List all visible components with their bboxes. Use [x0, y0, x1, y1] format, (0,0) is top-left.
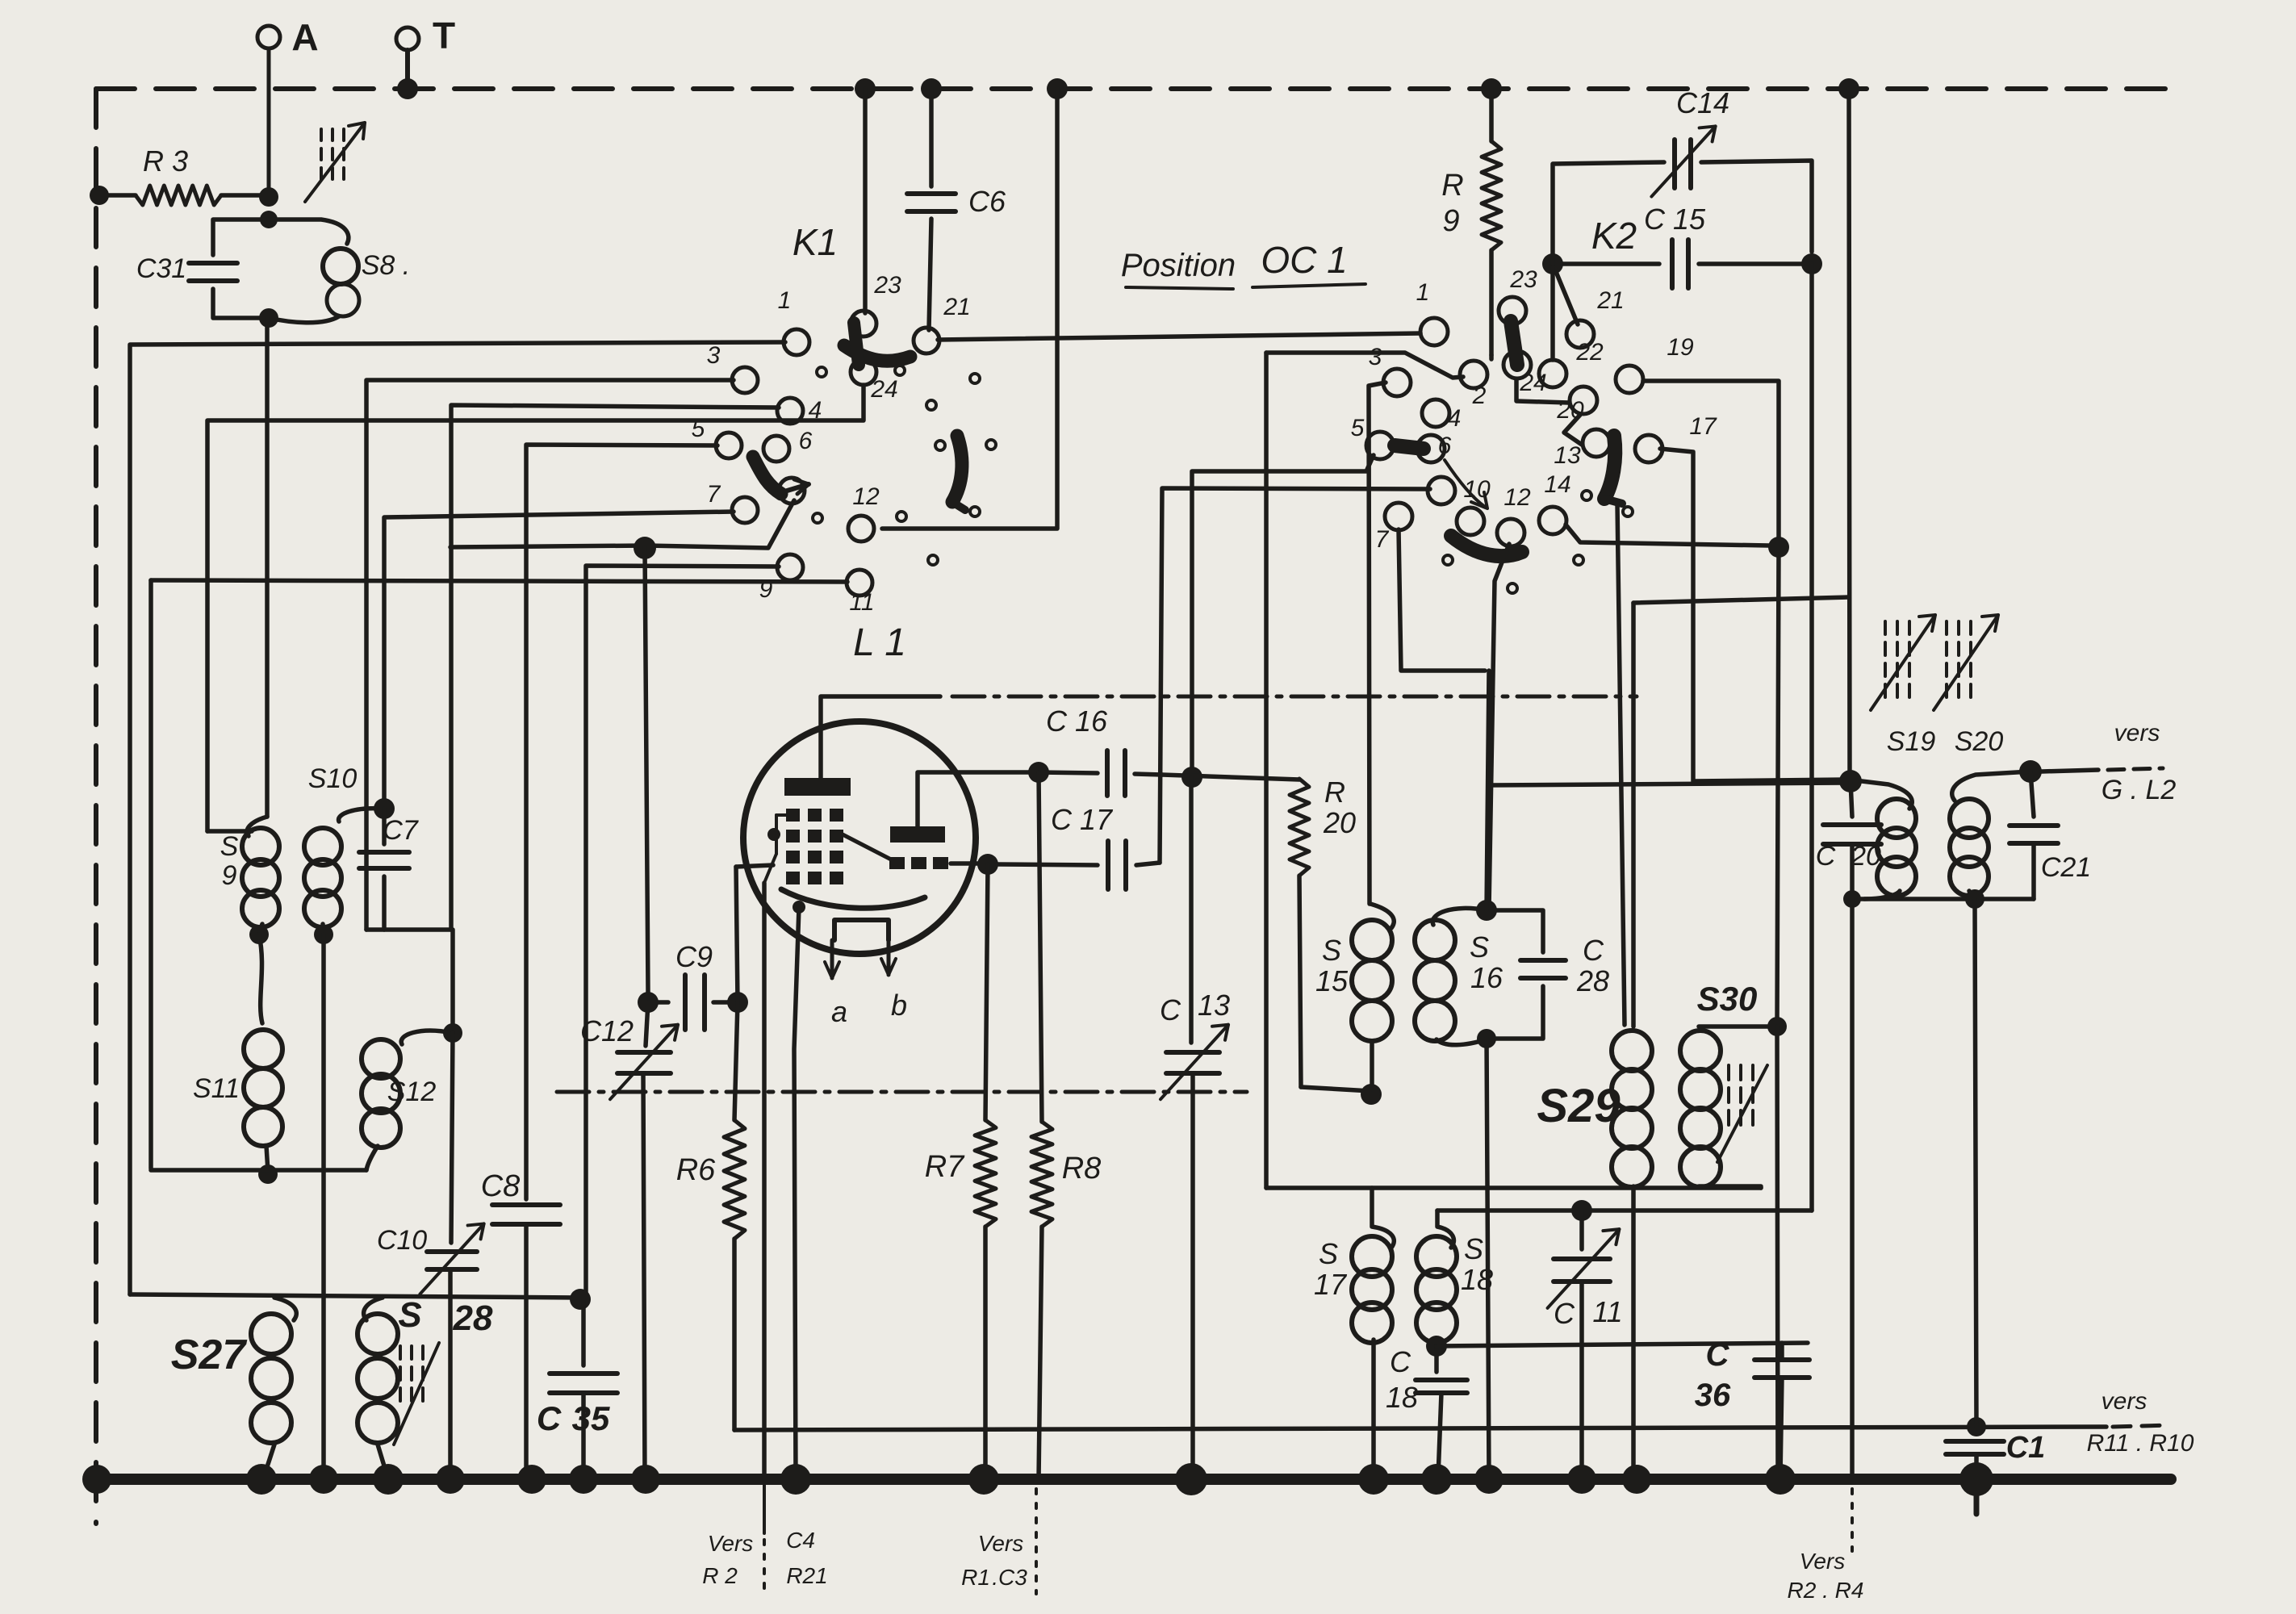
node K1 terminal 3	[732, 367, 758, 393]
node K1 pin label 24	[870, 376, 897, 403]
svg-text:1: 1	[1416, 279, 1430, 306]
inductor S19	[1862, 726, 1935, 899]
switch K2 rotor bar A	[1511, 321, 1517, 365]
inductor S20	[1950, 726, 2030, 899]
node K2 pin label 12	[1503, 484, 1531, 511]
node K1 terminal 21	[914, 328, 939, 353]
wire K2-7 feed	[1399, 529, 1485, 671]
svg-text:21: 21	[943, 294, 970, 320]
svg-text:S20: S20	[1955, 726, 2004, 757]
svg-text:S29: S29	[1537, 1080, 1620, 1132]
svg-text:K1: K1	[793, 221, 838, 263]
wire S29 top link	[1633, 597, 1849, 603]
wire K2 rotor to S29	[1617, 504, 1625, 1025]
svg-text:7: 7	[707, 481, 721, 508]
svg-text:S8 .: S8 .	[362, 250, 410, 281]
wire R3 right	[221, 187, 278, 228]
svg-text:S27: S27	[171, 1332, 248, 1378]
svg-text:C21: C21	[2041, 852, 2091, 883]
node K2 terminal 12	[1497, 519, 1524, 546]
wire K2-5 feed	[1192, 455, 1374, 776]
svg-text:24: 24	[870, 376, 897, 403]
svg-text:R 3: R 3	[143, 144, 188, 178]
svg-text:9: 9	[222, 860, 237, 891]
svg-text:36: 36	[1695, 1378, 1731, 1413]
resistor R20	[1290, 776, 1371, 1091]
svg-text:17: 17	[1314, 1268, 1348, 1301]
wire S16 drop	[1487, 1039, 1489, 1478]
switch K2 rotor arc D	[1451, 536, 1522, 556]
node K1 terminal 6	[763, 436, 789, 462]
capacitor C14	[1553, 86, 1812, 264]
svg-text:C10: C10	[377, 1225, 427, 1256]
node K2 pin label 4	[1448, 405, 1462, 432]
svg-text:R: R	[1441, 169, 1463, 203]
wire K2-12 drop	[1489, 544, 1509, 909]
svg-text:S12: S12	[387, 1077, 437, 1107]
svg-text:3: 3	[1369, 344, 1382, 370]
capacitor C16	[1028, 705, 1162, 796]
node K2 terminal 10	[1457, 508, 1484, 535]
svg-text:4: 4	[1448, 405, 1462, 432]
capacitor C13 trimmer	[1160, 777, 1230, 1479]
svg-text:T: T	[433, 15, 455, 56]
svg-text:C: C	[1554, 1297, 1575, 1330]
svg-text:3: 3	[707, 342, 721, 369]
node K2-14 junction	[1768, 537, 1789, 558]
svg-text:S11: S11	[193, 1073, 240, 1104]
svg-text:a: a	[831, 995, 847, 1028]
wire R6 bottom rail	[734, 1427, 2106, 1430]
node K2 terminal 7	[1385, 503, 1412, 530]
node K1 terminal 9	[777, 554, 803, 580]
tube L1 heater pin b	[881, 940, 907, 1022]
capacitor C28	[1496, 910, 1609, 1039]
svg-text:C12: C12	[580, 1014, 634, 1047]
node ground junction x120	[82, 1465, 111, 1494]
tube L1 cathode	[781, 889, 925, 914]
svg-text:Position: Position	[1121, 248, 1236, 283]
wire y1662	[1437, 1343, 1808, 1346]
svg-text:C: C	[1390, 1345, 1411, 1378]
svg-text:S19: S19	[1887, 726, 1936, 757]
wire right drop	[1849, 89, 1850, 780]
node label vers R2	[702, 1531, 753, 1588]
capacitor C17	[997, 803, 1160, 889]
svg-text:S10: S10	[308, 763, 358, 794]
svg-text:R1 .C3: R1 .C3	[961, 1565, 1027, 1590]
wire L1 top cap	[821, 696, 940, 778]
svg-text:2: 2	[1472, 383, 1487, 409]
svg-text:S30: S30	[1697, 980, 1758, 1018]
wire K2 24-20 link	[1516, 379, 1569, 403]
inductor S28	[358, 1295, 493, 1479]
node K2 terminal 4	[1422, 399, 1449, 427]
node K2 terminal 13	[1583, 429, 1610, 457]
svg-text:G . L2: G . L2	[2102, 775, 2177, 805]
node K2 spare contacts	[1443, 491, 1633, 593]
node label C4 R21	[786, 1528, 828, 1588]
wire K2 outline drop	[1264, 353, 1269, 1188]
capacitor C12 trimmer	[580, 1002, 678, 1479]
wire K1-11 drop	[148, 580, 153, 1169]
node C16 right join	[1181, 767, 1202, 788]
svg-text:C: C	[1583, 934, 1604, 967]
wire K1-8 drop	[645, 548, 648, 993]
wire L1 anode up	[918, 772, 1030, 826]
node K1 terminal 24	[851, 359, 876, 385]
node K1 terminal 5	[716, 433, 742, 458]
node ground junction x659	[517, 1465, 546, 1494]
svg-text:11: 11	[1592, 1295, 1622, 1328]
svg-text:6: 6	[1438, 433, 1452, 459]
svg-text:vers: vers	[2102, 1388, 2148, 1415]
node ground junction x1476	[1175, 1463, 1207, 1495]
switch K1 label	[793, 221, 838, 263]
node ground junction x2449	[1959, 1462, 1993, 1496]
svg-text:18: 18	[1386, 1381, 1418, 1414]
node S30 junction	[1767, 1017, 1787, 1036]
capacitor C10 trimmer	[377, 1033, 484, 1479]
svg-text:R6: R6	[676, 1153, 716, 1187]
wire K2 bottom rail	[1266, 1185, 1761, 1190]
switch K2 label	[1591, 215, 1637, 257]
inductor S27	[171, 1298, 297, 1479]
svg-text:R21: R21	[786, 1563, 827, 1588]
wire K1-5 feed	[526, 445, 717, 1199]
capacitor C9	[638, 940, 748, 1030]
inductor S8	[259, 220, 410, 328]
wire K2-14 feed	[1566, 525, 1769, 546]
svg-text:K2: K2	[1591, 215, 1637, 257]
svg-text:23: 23	[873, 272, 901, 299]
node label Position OC1	[1121, 239, 1365, 289]
node junction top5	[1838, 78, 1859, 99]
node ground junction x324	[246, 1464, 277, 1495]
svg-text:C14: C14	[1676, 86, 1729, 119]
node K1 pin label 9	[759, 576, 773, 603]
node K2 terminal 24	[1503, 351, 1531, 378]
wire y1500 rail	[1437, 1208, 1812, 1213]
wire S19 bottom rail	[1843, 889, 2034, 909]
node ground junction x2206	[1765, 1464, 1796, 1495]
node K1 terminal 11	[847, 570, 872, 596]
node K1 terminal 23	[851, 311, 876, 337]
capacitor C21	[2010, 771, 2091, 899]
node K2 terminal 1	[1420, 318, 1448, 345]
node K2 terminal 21	[1566, 320, 1594, 348]
wire B+ drop to K1-12	[882, 89, 1057, 529]
svg-text:L 1: L 1	[853, 621, 906, 664]
node K2 terminal 22	[1539, 360, 1566, 387]
node K2 pin label 23	[1509, 266, 1537, 293]
node S20 top junction	[2019, 760, 2042, 783]
inductor S29 label	[1537, 1080, 1620, 1132]
wire vers R11 dashes	[2113, 1425, 2169, 1427]
svg-text:22: 22	[1575, 339, 1604, 366]
wire S11 link	[259, 935, 262, 1023]
node K1 terminal 1	[784, 329, 809, 355]
node S19 core marks	[1871, 615, 1935, 710]
node S16 bottom junction	[1477, 1029, 1496, 1048]
wire y965	[1162, 775, 1299, 780]
svg-text:OC 1: OC 1	[1261, 239, 1347, 281]
tube L1 label	[853, 621, 906, 664]
wire vers R2R4 lead	[1851, 1489, 1854, 1551]
capacitor C31	[136, 220, 269, 318]
switch K1 rotor arc B	[753, 457, 809, 494]
tube L1 control grid	[786, 809, 843, 884]
svg-text:9: 9	[1442, 204, 1459, 238]
svg-text:R11 . R10: R11 . R10	[2087, 1430, 2194, 1457]
svg-text:R2 . R4: R2 . R4	[1788, 1578, 1864, 1603]
node ground junction x1219	[968, 1464, 999, 1495]
node L1 screen junction	[977, 854, 998, 875]
svg-text:35: 35	[572, 1399, 610, 1437]
svg-text:28: 28	[1576, 964, 1609, 997]
node K2 terminal 17	[1635, 435, 1662, 462]
node K2 pin label 6	[1438, 433, 1452, 459]
node K1 pin label 7	[707, 481, 721, 508]
wire S8 down	[265, 318, 270, 817]
resistor R9	[1441, 89, 1501, 355]
inductor S16	[1415, 908, 1503, 1044]
wire dashed top border	[96, 86, 2168, 91]
svg-text:24: 24	[1519, 370, 1546, 396]
tube L1 grid link diagonal	[843, 834, 893, 860]
resistor R7	[925, 864, 996, 1479]
svg-text:C9: C9	[675, 940, 713, 973]
wire K1-8 feed	[450, 500, 794, 559]
switch K2 rotor bar B	[1395, 445, 1424, 449]
node K2 pin label 14	[1544, 471, 1570, 498]
svg-text:b: b	[891, 989, 907, 1022]
svg-text:R7: R7	[925, 1150, 965, 1184]
svg-text:R 2: R 2	[702, 1563, 738, 1588]
node K2 pin label 19	[1667, 334, 1694, 361]
capacitor C18	[1386, 1345, 1467, 1478]
wire S30 drop2	[1777, 1027, 1778, 1479]
capacitor C11 trimmer	[1548, 1210, 1623, 1478]
svg-text:C31: C31	[136, 253, 186, 284]
node K2 terminal 8	[1428, 477, 1455, 504]
node S9 bottom junction	[249, 925, 269, 944]
inductor S17	[1314, 1188, 1394, 1478]
node C1 junction	[1967, 1417, 1986, 1436]
capacitor C36	[1695, 1337, 1809, 1478]
svg-text:C8: C8	[481, 1169, 521, 1203]
svg-text:A: A	[291, 16, 318, 58]
svg-text:1: 1	[778, 287, 792, 314]
node K1 pin label 21	[943, 294, 970, 320]
svg-text:5: 5	[1351, 415, 1365, 441]
wire A lead	[267, 48, 271, 197]
svg-text:C 15: C 15	[1644, 203, 1706, 236]
switch K2 rotor arc C	[1604, 436, 1622, 504]
node junction top3	[1047, 78, 1068, 99]
wire S30 drop	[1777, 547, 1779, 1027]
svg-text:20: 20	[1850, 841, 1881, 872]
svg-text:C: C	[1160, 993, 1181, 1027]
svg-text:Vers: Vers	[708, 1531, 754, 1556]
capacitor C20	[1816, 781, 1881, 899]
svg-text:14: 14	[1544, 471, 1570, 498]
node ground junction x481	[373, 1464, 404, 1495]
wire S11 bottom rail	[151, 1168, 366, 1173]
wire K1-7 feed	[384, 512, 734, 807]
node C7 junction	[374, 798, 395, 819]
svg-text:C7: C7	[383, 815, 419, 846]
svg-text:12: 12	[852, 483, 880, 510]
node K2 terminal 6	[1417, 435, 1445, 462]
tube L1 top grid bar	[784, 778, 851, 796]
tube L1 grid tap	[764, 815, 786, 883]
node K2 pin label 10	[1463, 476, 1491, 503]
capacitor C15	[1562, 203, 1812, 1210]
node junction top2	[921, 78, 942, 99]
wire S28 core marks	[394, 1343, 439, 1445]
tube L1 anode bar	[890, 826, 945, 843]
wire L1 gang dashdot	[952, 695, 1637, 699]
svg-text:Vers: Vers	[978, 1531, 1024, 1556]
resistor R6	[676, 1002, 745, 1430]
svg-text:C 16: C 16	[1046, 705, 1108, 738]
node ground junction x1780	[1421, 1464, 1452, 1495]
inductor S12	[362, 1031, 453, 1170]
node K1 pin label 5	[692, 416, 705, 442]
wire T lead	[397, 50, 418, 99]
node K1 pin label 12	[852, 483, 880, 510]
wire K2-3 feed	[1369, 383, 1386, 904]
node K1 pin label 23	[873, 272, 901, 299]
node K2 terminal 2	[1460, 361, 1487, 388]
wire C16 drop R8	[1039, 772, 1042, 1122]
switch K1 rotor arc C	[952, 436, 965, 510]
wire K2-19 feed	[1643, 381, 1779, 539]
svg-text:19: 19	[1667, 334, 1694, 361]
switch K1 rotor arc A	[844, 323, 910, 365]
capacitor C7	[359, 809, 419, 930]
wire K1-23 drop	[863, 89, 868, 313]
node K2 pin label 1	[1416, 279, 1430, 306]
wire S27 top rail	[130, 1294, 580, 1298]
svg-text:7: 7	[1375, 526, 1390, 553]
node ground junction x986	[780, 1464, 811, 1495]
wire grid2 drop	[762, 883, 767, 1479]
node K1 pin label 6	[799, 428, 813, 454]
node ground junction x558	[436, 1465, 465, 1494]
node K1 terminal 7	[732, 497, 758, 523]
node K1 terminal 8	[779, 478, 805, 504]
inductor S29	[1612, 603, 1652, 1478]
node K1 terminal 4	[777, 398, 803, 424]
node K2 pin label 24	[1519, 370, 1546, 396]
node K2 pin label 21	[1596, 287, 1624, 314]
node K2 pin label 7	[1375, 526, 1390, 553]
node K2 pin label 2	[1472, 383, 1487, 409]
tube L1 heater pin a	[825, 940, 847, 1028]
wire K1-3 feed	[366, 380, 734, 930]
wire K2-17 feed	[1660, 449, 1848, 781]
svg-text:13: 13	[1554, 442, 1581, 469]
svg-text:28: 28	[453, 1298, 493, 1338]
svg-text:S: S	[1470, 930, 1489, 964]
wire K1-4 feed	[451, 405, 779, 930]
node K2 terminal 14	[1539, 507, 1566, 534]
node A terminal	[257, 16, 319, 58]
node K1 pin label 4	[809, 397, 822, 424]
resistor R3	[136, 144, 221, 205]
node S15 bottom junction	[1361, 1084, 1382, 1105]
node S11 bottom junction	[258, 1165, 278, 1184]
node K1 pin label 11	[849, 589, 874, 616]
wire K1-9 feed	[586, 566, 779, 1294]
svg-text:C6: C6	[968, 185, 1006, 218]
node ground junction x1960	[1567, 1465, 1596, 1494]
svg-text:13: 13	[1198, 989, 1230, 1022]
wire S20 drop	[1975, 899, 1976, 1427]
svg-text:C 17: C 17	[1051, 803, 1114, 836]
svg-text:S: S	[1319, 1237, 1338, 1270]
wire ground bus	[95, 1474, 2171, 1485]
wire S30 core marks	[1717, 1065, 1767, 1162]
wire S10 drop	[321, 935, 326, 1479]
svg-text:20: 20	[1323, 806, 1356, 839]
node K2 pin label 22	[1575, 339, 1604, 366]
wire K2 rotor sweep	[1445, 460, 1487, 508]
node C35 junction	[570, 1289, 591, 1310]
node K2 pin label 3	[1369, 344, 1382, 370]
tube L1 envelope	[743, 721, 976, 954]
node S18 bottom junction	[1426, 1336, 1447, 1357]
tube L1 screen dashes	[889, 857, 948, 869]
wire L1 cathode drop	[794, 907, 799, 1479]
node S20 core marks	[1934, 615, 1998, 710]
wire K1-24 drop	[207, 385, 864, 831]
svg-text:R8: R8	[1062, 1152, 1102, 1185]
node K2 pin label 20	[1556, 397, 1584, 424]
inductor S11	[193, 1030, 282, 1172]
svg-text:23: 23	[1509, 266, 1537, 293]
node K2 terminal 20	[1570, 387, 1597, 414]
wire K2 outline	[1266, 353, 1463, 378]
inductor S10	[304, 763, 384, 935]
capacitor C35	[537, 1299, 617, 1479]
wire K2-8 feed	[1160, 488, 1430, 863]
wire L1 screen out	[951, 861, 978, 866]
inductor S9	[220, 817, 279, 933]
wire R3 left	[90, 186, 136, 205]
wire vers R1C3 lead	[1035, 1489, 1038, 1594]
node K1 pin label 1	[778, 287, 792, 314]
node ground stub C1	[1974, 1479, 1980, 1514]
svg-text:21: 21	[1596, 287, 1624, 314]
wire K2 20-13 link	[1564, 415, 1582, 445]
svg-text:C4: C4	[786, 1528, 815, 1553]
node ground junction x723	[569, 1465, 598, 1494]
node K2 terminal 19	[1616, 366, 1643, 393]
wire C20 drop	[1850, 899, 1855, 1479]
node junction top1	[855, 78, 876, 99]
node label vers R1 C3	[961, 1531, 1027, 1590]
svg-text:6: 6	[799, 428, 813, 454]
wire y973 to S19	[1489, 783, 1848, 785]
resistor R8	[1031, 1122, 1101, 1479]
wire S9 box top	[207, 829, 252, 834]
node C11 top junction	[1571, 1200, 1592, 1221]
node K2 terminal 23	[1499, 297, 1526, 324]
svg-text:S: S	[220, 831, 239, 862]
